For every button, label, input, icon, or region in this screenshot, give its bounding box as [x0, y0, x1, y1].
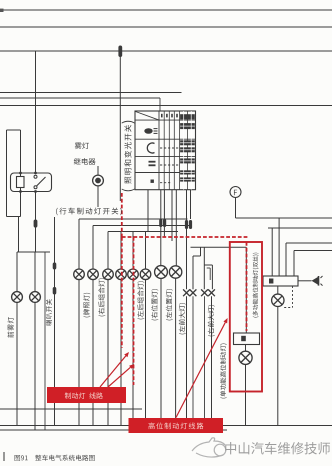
red dashed trace: drop from switch	[121, 193, 123, 237]
label: single function high mount brake lamp (rotated)	[220, 343, 227, 398]
U1 header diagonal	[136, 112, 160, 121]
label: callout text high mount brake lamp circuit	[148, 423, 203, 430]
wire bottom bus G1 (partial)	[0, 408, 142, 410]
label: horn switch (rotated)	[46, 299, 52, 325]
relay K1 (fog lamp relay) body	[11, 173, 52, 192]
label: fog lamp relay	[75, 142, 89, 149]
wire U1 out 3	[163, 190, 165, 237]
wire headlamp H1 filament leads to ground	[186, 296, 188, 425]
label: multi function high mount brake lamp (rotated)	[253, 253, 259, 318]
wire bus B3	[0, 50, 332, 52]
wire drop R1a	[278, 218, 280, 276]
label: callout text brake lamp circuit	[65, 392, 103, 398]
U1 contact block hatch whites	[180, 125, 195, 127]
connector pins under U1	[159, 219, 162, 227]
buzzer BZ1	[312, 277, 319, 285]
wire drop to lamp L3	[78, 219, 80, 269]
U1 row dividers	[135, 119, 196, 121]
U1 header contact block	[180, 114, 195, 119]
wire coil return	[20, 188, 22, 217]
wire brake switch bracket 3	[108, 231, 178, 233]
wire bus B4 (partial)	[0, 92, 182, 94]
wire drop to lamp L7	[132, 232, 134, 270]
wire feed into frame	[230, 246, 247, 248]
wire drop to lamp L4	[92, 226, 94, 270]
wire coil loop bottom bracket	[7, 216, 21, 218]
wire bus B2	[0, 26, 332, 28]
wire headlamp H2 inner hook	[207, 267, 211, 269]
U1 wiper dashes	[160, 147, 179, 149]
wire lamp L10 drop	[175, 278, 177, 425]
wire headlamp H2 filament leads to ground	[204, 296, 206, 425]
U1 header pin marks	[161, 114, 163, 118]
red callout box: high mount brake lamp circuit	[129, 418, 224, 433]
red callout box: brake lamp circuit	[47, 387, 126, 403]
connector E1 (circled terminal)	[93, 175, 104, 186]
dashed link from M2 right	[292, 286, 294, 308]
wire headlamp feeder h	[191, 246, 230, 248]
U1 column dividers	[158, 111, 160, 190]
wire drop to lamp L5	[107, 232, 109, 270]
wire lamp drop 2	[92, 280, 94, 426]
label: lighting and dimmer switch (rotated)	[122, 189, 135, 192]
lamp L12 (single function high brake lamp)	[272, 294, 284, 306]
U1 icon row2 (dimmer symbol)	[147, 143, 154, 153]
label: front fog lamp (rotated)	[7, 317, 13, 338]
wire horn branch	[54, 217, 56, 426]
module M2 (lamp driver module)	[263, 276, 298, 286]
label: right position lamp (rotated)	[151, 289, 158, 320]
wire fog lamp header	[17, 251, 50, 253]
wire bottom bus G2	[0, 425, 332, 427]
wire brake switch bracket 2	[93, 225, 192, 227]
switch assembly U1 (lighting and dimmer switch) outline	[135, 111, 196, 190]
wire lamp L12 to ground bus	[277, 307, 279, 426]
label: left rear combination lamp (rotated)	[137, 281, 144, 319]
label: left position lamp (rotated)	[166, 289, 173, 320]
lamp L3 (license plate lamp)	[74, 269, 85, 280]
switch S1 (horn switch) capsule	[53, 263, 57, 270]
wire lamp drop 4	[120, 280, 122, 426]
connector F (circled letter)	[230, 187, 241, 198]
watermark text	[225, 442, 330, 454]
wire above connector E1	[97, 166, 99, 175]
lamp L7 (brake lamp right)	[128, 269, 139, 280]
wire to headlamp H1a	[186, 229, 188, 289]
red arrow 1 from callout	[100, 356, 126, 387]
connector pin on horn wire	[53, 287, 57, 295]
wire drop R4a	[293, 251, 295, 277]
module M2 mark	[269, 279, 273, 284]
watermark logo	[192, 438, 226, 457]
wire U1 out 2	[160, 190, 162, 267]
wire bus B6	[0, 105, 332, 107]
headlamp H1 (left front, double filament)	[183, 289, 190, 296]
lamp L10 (position lamp)	[169, 266, 181, 278]
wire coil feed down	[20, 130, 22, 177]
wire feeder R2	[268, 227, 332, 229]
label: left front headlamp (rotated)	[179, 303, 186, 334]
wire drop to module M1	[245, 247, 247, 333]
U1 icon row4 (park symbol)	[151, 180, 154, 183]
red arrow 2 from callout	[108, 367, 130, 387]
U1 icon row3 (position lamp symbol)	[149, 161, 156, 163]
wire U1 out 4	[171, 190, 173, 241]
relay K1 contact fixed points	[34, 175, 37, 178]
wire drop R3a	[285, 243, 287, 276]
lamp L2 (front fog lamp right)	[30, 292, 41, 303]
label: right rear combination lamp (rotated)	[98, 278, 105, 316]
relay K1 contact arm	[37, 177, 46, 186]
wire coil loop top bracket	[7, 129, 21, 131]
wire drop to lamp L8	[145, 232, 147, 270]
red dashed trace: brake lamp left	[121, 237, 123, 348]
wire M1 to lamp L11	[245, 345, 247, 352]
U1 icon row1 (headlamp symbol)	[144, 128, 152, 134]
wire feed from coil loop down	[18, 217, 20, 253]
wire drop R2a	[271, 228, 273, 276]
headlamp H2 (right front, double filament)	[201, 289, 208, 296]
wire U1 out 6	[186, 190, 188, 290]
wire M2 to buzzer	[298, 280, 312, 282]
wire coil loop left vertical	[6, 130, 8, 217]
wire feeder R1	[236, 217, 332, 219]
wire drop to lamp L6	[120, 232, 122, 270]
wire lamp L9 drop	[160, 278, 162, 425]
label: license plate lamp (rotated)	[83, 293, 90, 318]
red arrow from high-mount callout	[176, 322, 225, 417]
lamp L11 (high-mount brake lamp)	[239, 351, 252, 364]
wire below connector E1	[97, 186, 99, 207]
wire U1 out 7	[190, 190, 192, 219]
wire lamp drop 1	[78, 280, 80, 426]
lamp L6 (brake lamp left)	[116, 269, 127, 280]
lamp L1 (front fog lamp left)	[12, 292, 23, 303]
wire headlamp H2 hook	[204, 264, 212, 266]
junction dots on relay terminals	[19, 172, 22, 175]
wire M2 to lamp L12	[277, 286, 279, 294]
red highlight frame (high mount brake lamp circuit)	[230, 242, 262, 392]
wire headlamp H1 riser	[192, 256, 194, 289]
red dashed trace: into high-mount frame	[246, 242, 248, 331]
wire relay contact output	[35, 192, 37, 253]
caption tick	[3, 452, 5, 461]
lamp L4 (right rear combination lamp)	[88, 269, 99, 280]
wire brake switch bracket 1	[79, 218, 188, 220]
red dashed trace: horizontal run	[122, 236, 248, 238]
lamp L8 (right position lamp)	[140, 269, 151, 280]
U1 contact blocks (hatched cells)	[180, 123, 195, 129]
wire aux branch	[44, 252, 46, 430]
wire drop from B3 to relay contact	[35, 51, 37, 174]
wire feeder R4	[294, 250, 332, 252]
wire bus B1 (top horizontal)	[2, 9, 332, 11]
wire lamp drop 6	[145, 280, 147, 426]
wire drop to fog lamp 2	[34, 252, 36, 292]
wire bottom bus G3 (partial)	[0, 429, 227, 431]
lamp L9 (left position lamp)	[155, 266, 168, 279]
caption: figure title	[15, 455, 95, 461]
label: service brake lamp switch	[56, 208, 122, 216]
module M1 mark	[241, 336, 246, 341]
wire below connector F	[235, 198, 237, 219]
fuse F2 on drop	[118, 46, 122, 58]
wire lamp drop 3	[107, 280, 109, 426]
wire fog lamp 2 to ground bus	[34, 302, 36, 430]
wire U1 out 1	[147, 190, 149, 232]
lamp L5 (left rear combination lamp)	[103, 269, 114, 280]
wire drop to fog lamp 1	[16, 252, 18, 292]
label: right front headlamp (rotated)	[208, 305, 215, 336]
module M1 (multi-function high brake lamp module)	[234, 333, 260, 345]
relay K1 coil	[17, 177, 25, 188]
wire lamp L11 to ground bus	[245, 364, 247, 425]
wire fused drop from B3	[119, 51, 121, 201]
red dashed trace: brake lamp right	[133, 237, 135, 385]
wire headlamp H2 left drop	[203, 247, 205, 289]
wire feeder R3	[286, 242, 332, 244]
wire lamp drop 5	[132, 280, 134, 426]
wire bus B5 (partial, hooks into switch table)	[0, 97, 160, 99]
fuse F1 on relay output	[34, 220, 38, 228]
wire fog lamp 1 to ground bus	[16, 302, 18, 425]
wire U1 out 5	[175, 190, 177, 267]
